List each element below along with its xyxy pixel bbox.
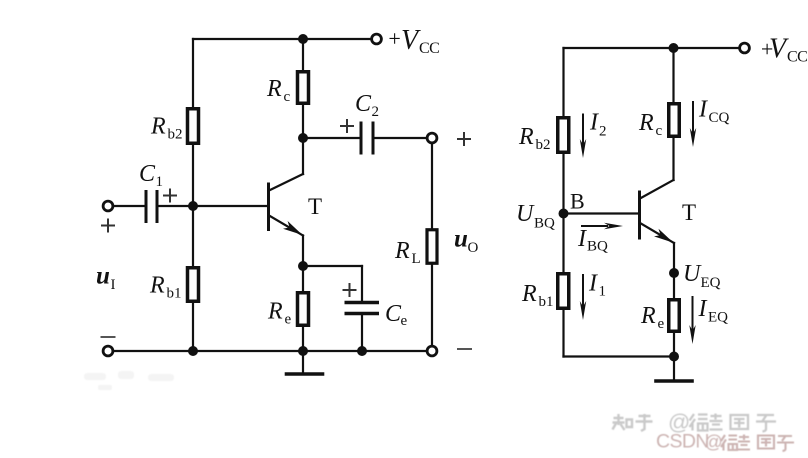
svg-text:1: 1 <box>156 174 164 190</box>
svg-text:b2: b2 <box>168 127 183 143</box>
svg-text:U: U <box>516 201 535 227</box>
svg-text:EQ: EQ <box>701 275 721 291</box>
svg-text:C: C <box>355 91 372 117</box>
svg-text:u: u <box>454 226 468 253</box>
svg-text:R: R <box>640 303 656 329</box>
svg-text:I: I <box>698 97 708 123</box>
svg-text:b1: b1 <box>167 286 182 302</box>
svg-text:I: I <box>698 296 708 322</box>
svg-text:I: I <box>577 226 587 252</box>
svg-text:2: 2 <box>599 124 607 140</box>
svg-text:V: V <box>401 25 421 56</box>
svg-text:BQ: BQ <box>534 216 555 232</box>
svg-text:I: I <box>111 277 116 293</box>
svg-text:T: T <box>308 194 322 219</box>
svg-text:C: C <box>139 161 156 187</box>
svg-text:T: T <box>682 200 696 225</box>
svg-text:L: L <box>412 251 421 267</box>
svg-text:R: R <box>266 76 282 102</box>
svg-text:CC: CC <box>419 40 439 57</box>
svg-text:B: B <box>570 189 585 214</box>
svg-text:CC: CC <box>787 49 807 66</box>
svg-text:BQ: BQ <box>587 239 608 255</box>
svg-text:c: c <box>284 89 291 105</box>
svg-text:EQ: EQ <box>708 310 728 326</box>
svg-text:+: + <box>387 26 402 51</box>
svg-text:e: e <box>401 313 408 329</box>
svg-text:R: R <box>149 273 165 299</box>
svg-text:CQ: CQ <box>709 110 730 126</box>
svg-text:b1: b1 <box>539 294 554 310</box>
svg-text:I: I <box>588 271 598 297</box>
svg-text:O: O <box>468 240 479 256</box>
svg-text:I: I <box>589 110 599 136</box>
svg-text:2: 2 <box>372 104 380 120</box>
svg-text:@: @ <box>705 432 723 452</box>
svg-text:C: C <box>385 301 402 327</box>
svg-text:V: V <box>769 34 789 65</box>
svg-text:R: R <box>150 114 166 140</box>
svg-text:e: e <box>658 316 665 332</box>
svg-text:R: R <box>521 281 537 307</box>
svg-text:CSDN: CSDN <box>656 431 709 453</box>
svg-text:R: R <box>638 110 654 136</box>
svg-text:R: R <box>267 299 283 325</box>
svg-text:c: c <box>656 123 663 139</box>
svg-text:u: u <box>96 263 110 290</box>
svg-text:1: 1 <box>599 284 607 300</box>
svg-text:R: R <box>394 238 410 264</box>
svg-text:U: U <box>683 261 702 287</box>
svg-text:R: R <box>518 124 534 150</box>
svg-text:e: e <box>285 312 292 328</box>
svg-text:b2: b2 <box>536 137 551 153</box>
